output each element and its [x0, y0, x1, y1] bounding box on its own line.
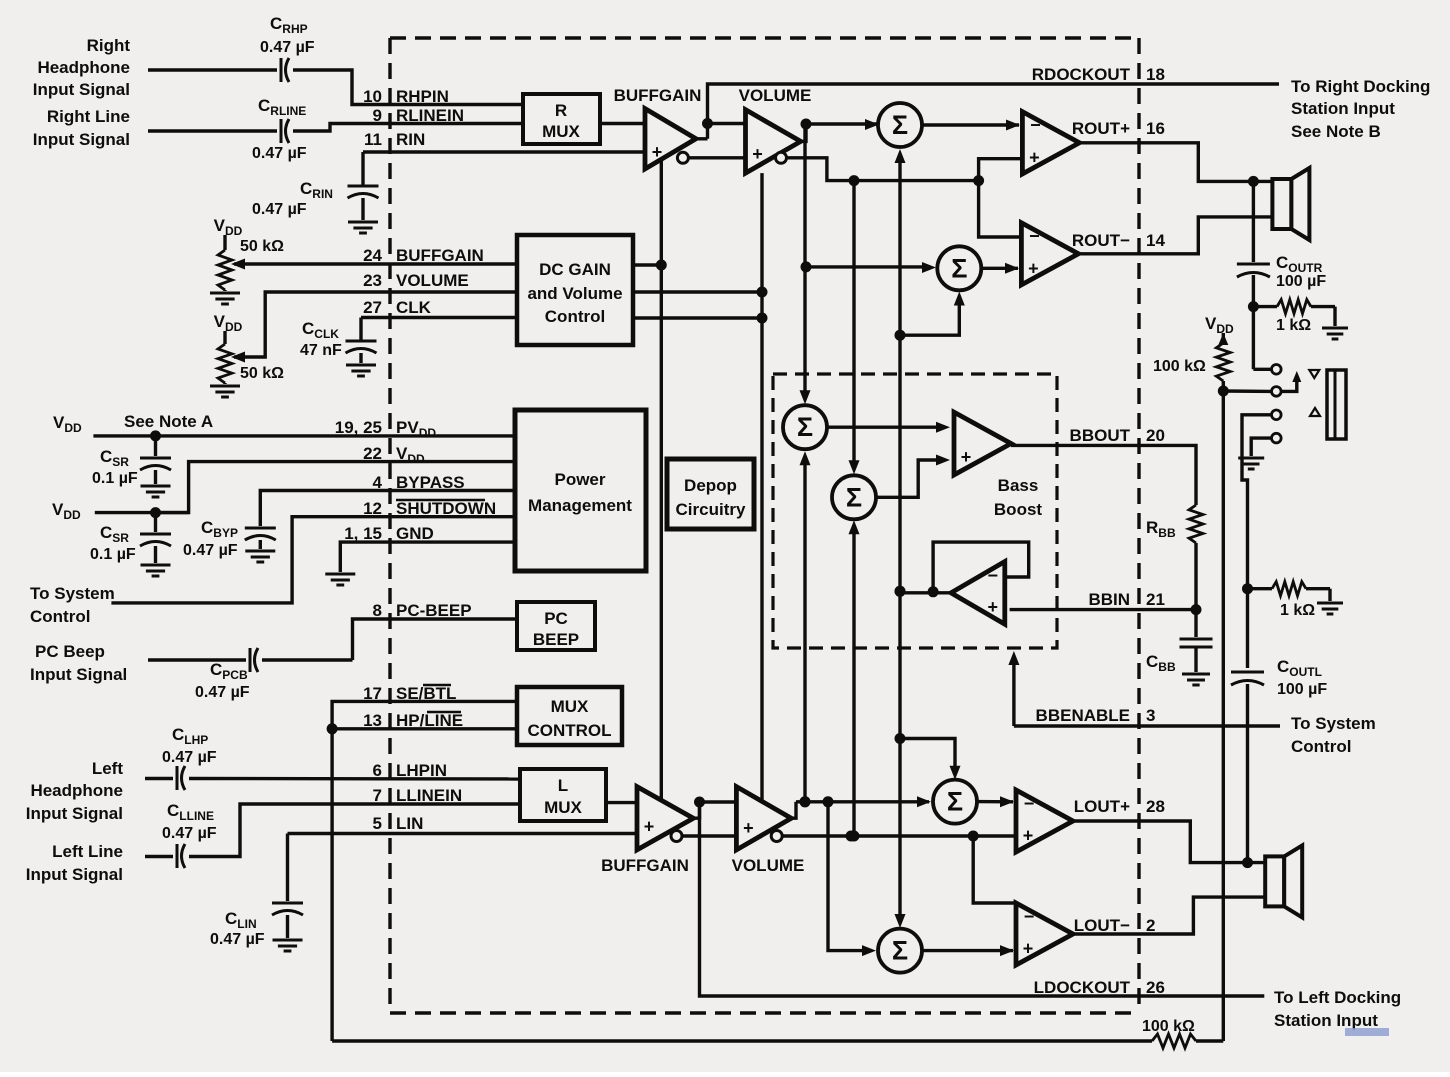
svg-text:1, 15: 1, 15 [344, 524, 382, 543]
svg-text:0.1 µF: 0.1 µF [90, 546, 136, 563]
svg-text:Left Line: Left Line [52, 842, 123, 861]
svg-text:21: 21 [1146, 590, 1165, 609]
svg-text:Management: Management [528, 496, 632, 515]
svg-text:BBIN: BBIN [1088, 590, 1130, 609]
svg-text:RIN: RIN [396, 130, 425, 149]
svg-text:SHUTDOWN: SHUTDOWN [396, 499, 496, 518]
svg-text:To Left Docking: To Left Docking [1274, 988, 1401, 1007]
svg-text:+: + [1029, 148, 1040, 168]
svg-text:Σ: Σ [797, 412, 813, 442]
svg-text:Station Input: Station Input [1291, 99, 1395, 118]
svg-text:Control: Control [1291, 737, 1351, 756]
svg-text:ROUT−: ROUT− [1072, 231, 1130, 250]
svg-text:26: 26 [1146, 978, 1165, 997]
svg-text:19, 25: 19, 25 [335, 418, 382, 437]
svg-text:10: 10 [363, 87, 382, 106]
svg-text:SE/BTL: SE/BTL [396, 684, 456, 703]
svg-text:RDOCKOUT: RDOCKOUT [1032, 65, 1131, 84]
svg-text:20: 20 [1146, 426, 1165, 445]
svg-text:MUX: MUX [544, 798, 582, 817]
svg-text:23: 23 [363, 271, 382, 290]
svg-text:See Note A: See Note A [124, 412, 213, 431]
svg-text:9: 9 [373, 106, 382, 125]
svg-text:100 µF: 100 µF [1277, 681, 1327, 698]
svg-text:4: 4 [373, 473, 383, 492]
svg-text:Control: Control [545, 307, 605, 326]
svg-text:8: 8 [373, 601, 382, 620]
svg-text:LOUT−: LOUT− [1074, 916, 1130, 935]
svg-text:BYPASS: BYPASS [396, 473, 465, 492]
svg-text:−: − [1024, 794, 1035, 814]
svg-text:+: + [752, 144, 763, 164]
svg-text:−: − [1024, 907, 1035, 927]
svg-text:11: 11 [364, 130, 382, 149]
svg-text:CONTROL: CONTROL [527, 721, 611, 740]
svg-text:DC GAIN: DC GAIN [539, 260, 611, 279]
svg-text:16: 16 [1146, 119, 1165, 138]
svg-text:7: 7 [373, 786, 382, 805]
svg-text:See Note B: See Note B [1291, 122, 1381, 141]
svg-text:LHPIN: LHPIN [396, 761, 447, 780]
svg-text:LLINEIN: LLINEIN [396, 786, 462, 805]
svg-text:−: − [1030, 115, 1041, 135]
svg-text:Input Signal: Input Signal [33, 80, 130, 99]
svg-text:Σ: Σ [846, 482, 862, 512]
svg-text:R: R [555, 101, 567, 120]
svg-text:Boost: Boost [994, 500, 1043, 519]
svg-text:17: 17 [363, 684, 382, 703]
svg-text:Input Signal: Input Signal [33, 130, 130, 149]
svg-text:Station Input: Station Input [1274, 1011, 1378, 1030]
svg-text:To Right Docking: To Right Docking [1291, 77, 1430, 96]
svg-text:1 kΩ: 1 kΩ [1280, 602, 1315, 619]
svg-text:0.47 µF: 0.47 µF [195, 684, 250, 701]
svg-text:PC: PC [544, 609, 568, 628]
svg-text:BUFFGAIN: BUFFGAIN [396, 246, 484, 265]
svg-text:Circuitry: Circuitry [676, 500, 746, 519]
svg-text:Headphone: Headphone [37, 58, 130, 77]
svg-text:14: 14 [1146, 231, 1165, 250]
svg-text:Σ: Σ [951, 253, 967, 283]
svg-text:0.47 µF: 0.47 µF [252, 145, 307, 162]
svg-text:VOLUME: VOLUME [732, 856, 805, 875]
svg-text:HP/LINE: HP/LINE [396, 711, 463, 730]
svg-text:VOLUME: VOLUME [739, 86, 812, 105]
svg-text:and Volume: and Volume [527, 284, 622, 303]
svg-text:18: 18 [1146, 65, 1165, 84]
svg-text:5: 5 [373, 814, 382, 833]
svg-text:Right: Right [87, 36, 131, 55]
svg-text:+: + [988, 597, 999, 617]
svg-text:Power: Power [554, 470, 605, 489]
svg-text:PC Beep: PC Beep [35, 642, 105, 661]
svg-text:47 nF: 47 nF [300, 342, 342, 359]
svg-text:50 kΩ: 50 kΩ [240, 238, 284, 255]
svg-text:Left: Left [92, 759, 124, 778]
svg-text:L: L [558, 776, 568, 795]
svg-text:PC-BEEP: PC-BEEP [396, 601, 472, 620]
svg-text:1 kΩ: 1 kΩ [1276, 317, 1311, 334]
svg-text:+: + [743, 818, 754, 838]
svg-text:22: 22 [363, 444, 382, 463]
svg-text:0.47 µF: 0.47 µF [183, 542, 238, 559]
svg-text:28: 28 [1146, 797, 1165, 816]
svg-text:RHPIN: RHPIN [396, 87, 449, 106]
svg-text:GND: GND [396, 524, 434, 543]
svg-text:6: 6 [373, 761, 382, 780]
svg-text:Headphone: Headphone [30, 781, 123, 800]
svg-text:3: 3 [1146, 706, 1155, 725]
svg-text:+: + [652, 142, 663, 162]
svg-text:CLK: CLK [396, 298, 432, 317]
svg-text:+: + [644, 817, 655, 837]
svg-text:0.47 µF: 0.47 µF [210, 931, 265, 948]
svg-text:0.1 µF: 0.1 µF [92, 470, 138, 487]
svg-text:Σ: Σ [892, 110, 908, 140]
svg-text:0.47 µF: 0.47 µF [162, 749, 217, 766]
svg-text:Input Signal: Input Signal [26, 804, 123, 823]
svg-text:+: + [1023, 826, 1034, 846]
svg-text:Input Signal: Input Signal [30, 665, 127, 684]
svg-text:−: − [1029, 226, 1040, 246]
svg-text:Input Signal: Input Signal [26, 865, 123, 884]
svg-text:LDOCKOUT: LDOCKOUT [1034, 978, 1131, 997]
svg-text:50 kΩ: 50 kΩ [240, 365, 284, 382]
svg-text:BEEP: BEEP [533, 630, 579, 649]
svg-text:2: 2 [1146, 916, 1155, 935]
svg-text:Bass: Bass [998, 476, 1039, 495]
svg-text:−: − [988, 566, 999, 586]
svg-text:Σ: Σ [947, 787, 963, 817]
svg-text:LIN: LIN [396, 814, 423, 833]
svg-text:+: + [961, 447, 972, 467]
svg-text:Right Line: Right Line [47, 107, 130, 126]
svg-text:0.47 µF: 0.47 µF [162, 825, 217, 842]
svg-text:100 kΩ: 100 kΩ [1153, 358, 1206, 375]
svg-text:LOUT+: LOUT+ [1074, 797, 1130, 816]
svg-text:BBOUT: BBOUT [1070, 426, 1131, 445]
svg-text:13: 13 [363, 711, 382, 730]
svg-text:BUFFGAIN: BUFFGAIN [601, 856, 689, 875]
svg-text:MUX: MUX [551, 697, 589, 716]
svg-text:24: 24 [363, 246, 382, 265]
svg-text:100 kΩ: 100 kΩ [1142, 1018, 1195, 1035]
svg-text:BUFFGAIN: BUFFGAIN [614, 86, 702, 105]
svg-text:0.47 µF: 0.47 µF [260, 39, 315, 56]
svg-text:+: + [1023, 939, 1034, 959]
svg-text:100 µF: 100 µF [1276, 273, 1326, 290]
svg-text:Σ: Σ [892, 936, 908, 966]
svg-text:Depop: Depop [684, 476, 737, 495]
svg-text:ROUT+: ROUT+ [1072, 119, 1130, 138]
svg-text:27: 27 [363, 298, 382, 317]
svg-text:To System: To System [30, 584, 115, 603]
svg-text:0.47 µF: 0.47 µF [252, 201, 307, 218]
svg-text:+: + [1028, 259, 1039, 279]
svg-text:VOLUME: VOLUME [396, 271, 469, 290]
svg-text:MUX: MUX [542, 122, 580, 141]
svg-text:12: 12 [363, 499, 382, 518]
svg-text:BBENABLE: BBENABLE [1036, 706, 1130, 725]
svg-text:RLINEIN: RLINEIN [396, 106, 464, 125]
svg-text:To System: To System [1291, 714, 1376, 733]
svg-text:Control: Control [30, 607, 90, 626]
